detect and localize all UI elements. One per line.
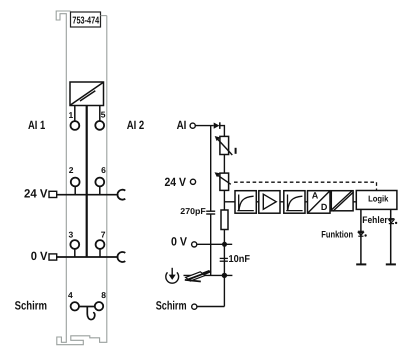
dashed control line from Logik to adjustable elements <box>234 182 377 190</box>
branch wire to signal chain <box>224 201 235 203</box>
wire between limiter and adjustable resistor <box>223 155 225 174</box>
stub terminal 2 to 24V rail <box>74 186 76 194</box>
svg-text:270pF: 270pF <box>180 206 206 216</box>
terminal 3 circle <box>70 240 79 249</box>
Logik box U2 <box>356 191 397 210</box>
adjustable element R1 (box with arrow, gain set) <box>220 173 229 190</box>
junction node earth/rail <box>222 273 227 278</box>
svg-text:6: 6 <box>101 165 106 175</box>
Funktion LED symbol <box>358 231 367 236</box>
internal conductor (middle line to 0V rail) <box>86 106 88 258</box>
svg-text:753-474: 753-474 <box>72 15 99 26</box>
earth wire <box>184 274 233 276</box>
capacitor 10nF <box>220 257 228 259</box>
svg-text:0 V: 0 V <box>171 235 187 249</box>
block B3: filter <box>284 191 305 214</box>
stub terminal 6 to 24V rail <box>99 186 101 194</box>
block B2: amplifier <box>259 191 280 214</box>
capacitor 270pF <box>206 210 215 212</box>
svg-text:24 V: 24 V <box>24 186 48 200</box>
svg-text:10nF: 10nF <box>229 254 251 265</box>
left branch rail (input filter line) <box>210 126 212 211</box>
AI terminal circle <box>190 123 195 128</box>
svg-text:3: 3 <box>69 229 74 239</box>
svg-text:0 V: 0 V <box>31 249 48 263</box>
transducer U1 (isolation transducer box) <box>70 82 104 106</box>
svg-text:7: 7 <box>101 229 106 239</box>
svg-text:Logik: Logik <box>368 194 389 204</box>
wire diode to corner <box>220 126 225 137</box>
svg-text:AI: AI <box>177 118 187 132</box>
chain connecting wire <box>235 201 356 203</box>
svg-text:A: A <box>312 191 319 201</box>
Fehler LED line <box>390 209 392 264</box>
svg-text:24 V: 24 V <box>165 175 187 189</box>
svg-text:5: 5 <box>101 110 106 120</box>
AI wire to diode <box>196 125 214 127</box>
24V open terminal circle <box>190 179 195 184</box>
24V power jumper contact arc <box>117 190 125 200</box>
shield link wire between terminals 4 and 8 <box>79 306 95 308</box>
block B4: A/D converter <box>308 191 331 214</box>
Funktion LED line <box>360 209 362 264</box>
module left latch hook outline <box>56 11 107 345</box>
svg-text:8: 8 <box>101 290 106 300</box>
0V terminal circle <box>192 242 197 247</box>
stub terminal 3 to 0V rail <box>74 249 76 257</box>
functional earth symbol <box>166 268 179 283</box>
svg-text:D: D <box>321 202 328 212</box>
svg-text:Schirm: Schirm <box>156 298 187 312</box>
current limiter Q1 (box with arrow, I) <box>220 136 229 154</box>
wire below adjustable element <box>223 190 225 210</box>
svg-text:2: 2 <box>69 165 74 175</box>
terminal 2 circle <box>71 178 80 187</box>
0V power jumper contact arc <box>117 252 125 262</box>
Fehler LED symbol <box>388 219 397 224</box>
Schirm terminal circle <box>192 304 197 309</box>
shield clamp loop <box>87 307 95 320</box>
label box 753-474 <box>71 12 101 27</box>
terminal 8 circle <box>95 302 103 310</box>
svg-text:Funktion: Funktion <box>321 229 353 240</box>
rail below resistor down to Schirm corner <box>223 230 225 307</box>
terminal 7 circle <box>96 240 105 249</box>
svg-text:AI 2: AI 2 <box>127 118 145 132</box>
0V wire-entry square <box>49 254 57 260</box>
svg-text:1: 1 <box>69 110 74 120</box>
module body outline (753-474 bus terminal silhouette) <box>56 11 107 345</box>
block B1: input filter <box>235 191 256 214</box>
junction node 0V/rail <box>222 242 227 247</box>
wire leg transducer to terminal 5 <box>99 106 101 122</box>
svg-text:Schirm: Schirm <box>15 298 47 312</box>
svg-text:4: 4 <box>68 290 73 300</box>
wire 270pF down to earth line <box>210 215 212 276</box>
block B5: galvanic isolation <box>331 191 353 212</box>
0V wire <box>197 243 232 245</box>
wire leg transducer to terminal 1 <box>74 106 76 122</box>
24V rail across module <box>57 194 119 196</box>
DIN rail contact icon <box>185 270 211 281</box>
stub terminal 7 to 0V rail <box>99 249 101 257</box>
Schirm wire to rail <box>197 306 224 308</box>
terminal 5 circle <box>95 121 104 130</box>
24V wire-entry square <box>49 191 57 197</box>
terminal 1 circle <box>71 121 80 130</box>
terminal 6 circle <box>95 178 104 187</box>
diode D1 <box>214 123 220 129</box>
svg-text:AI 1: AI 1 <box>28 118 46 132</box>
wire from label box to module right edge <box>101 15 107 17</box>
0V rail across module <box>57 256 119 258</box>
terminal 4 circle <box>71 302 79 310</box>
svg-text:Fehler: Fehler <box>362 215 388 226</box>
resistor R2 <box>221 210 228 230</box>
